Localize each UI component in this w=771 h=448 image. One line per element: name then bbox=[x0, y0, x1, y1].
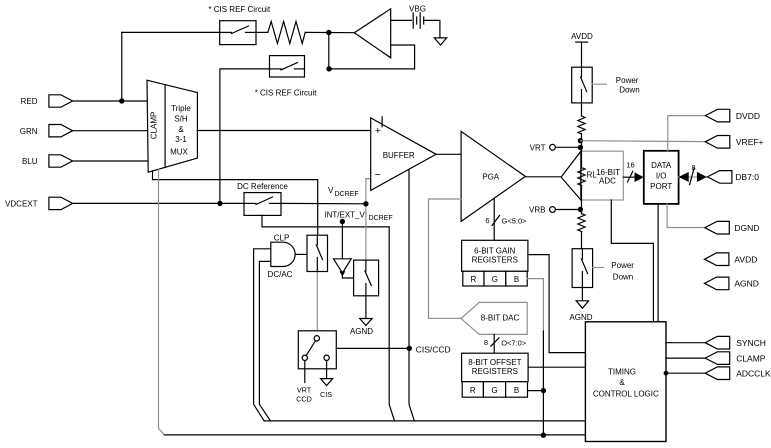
svg-text:DC/AC: DC/AC bbox=[268, 270, 293, 279]
svg-text:DVDD: DVDD bbox=[736, 111, 760, 121]
svg-text:AGND: AGND bbox=[734, 279, 759, 289]
svg-text:BLU: BLU bbox=[22, 157, 38, 166]
svg-text:AGND: AGND bbox=[569, 313, 592, 322]
svg-text:REGISTERS: REGISTERS bbox=[472, 255, 518, 264]
svg-text:−: − bbox=[375, 169, 381, 181]
svg-text:8: 8 bbox=[484, 338, 488, 347]
svg-text:CIS/CCD: CIS/CCD bbox=[416, 344, 451, 354]
svg-text:ADCCLK: ADCCLK bbox=[736, 368, 771, 378]
svg-text:VBG: VBG bbox=[409, 5, 426, 14]
svg-text:Triple: Triple bbox=[171, 104, 191, 113]
svg-text:DCREF: DCREF bbox=[369, 215, 393, 222]
svg-text:8-BIT OFFSET: 8-BIT OFFSET bbox=[468, 358, 521, 367]
svg-text:VREF+: VREF+ bbox=[736, 137, 764, 147]
svg-text:CCD: CCD bbox=[296, 395, 312, 404]
svg-text:DCREF: DCREF bbox=[335, 191, 359, 198]
svg-text:CONTROL LOGIC: CONTROL LOGIC bbox=[593, 390, 659, 399]
svg-text:DGND: DGND bbox=[734, 223, 759, 233]
svg-text:I/O: I/O bbox=[656, 172, 667, 181]
svg-text:Power: Power bbox=[611, 261, 634, 270]
svg-text:&: & bbox=[619, 378, 625, 387]
svg-text:VDCEXT: VDCEXT bbox=[5, 200, 38, 209]
svg-text:V: V bbox=[328, 186, 334, 195]
svg-text:8-BIT DAC: 8-BIT DAC bbox=[481, 314, 520, 323]
svg-text:Power: Power bbox=[616, 76, 639, 85]
svg-text:INT/EXT_V: INT/EXT_V bbox=[324, 211, 365, 220]
svg-text:R: R bbox=[470, 386, 476, 395]
svg-text:&: & bbox=[178, 125, 184, 134]
svg-text:G<5:0>: G<5:0> bbox=[502, 217, 528, 226]
svg-text:3-1: 3-1 bbox=[175, 135, 187, 144]
svg-text:6-BIT GAIN: 6-BIT GAIN bbox=[474, 247, 515, 256]
svg-text:ADC: ADC bbox=[599, 177, 616, 186]
svg-text:DATA: DATA bbox=[651, 161, 672, 170]
svg-text:PORT: PORT bbox=[650, 182, 672, 191]
svg-text:G: G bbox=[492, 275, 498, 284]
svg-text:B: B bbox=[514, 275, 519, 284]
svg-text:SYNCH: SYNCH bbox=[736, 338, 766, 348]
svg-text:AGND: AGND bbox=[350, 327, 373, 336]
svg-text:S/H: S/H bbox=[174, 115, 188, 124]
svg-text:VRT: VRT bbox=[530, 143, 546, 152]
svg-text:R: R bbox=[471, 275, 477, 284]
svg-text:CLAMP: CLAMP bbox=[736, 353, 766, 363]
svg-text:TIMING: TIMING bbox=[608, 368, 636, 377]
svg-text:BUFFER: BUFFER bbox=[383, 151, 415, 160]
svg-text:GRN: GRN bbox=[20, 127, 38, 136]
svg-text:8: 8 bbox=[692, 163, 696, 172]
svg-text:PGA: PGA bbox=[482, 172, 500, 181]
svg-text:+: + bbox=[375, 125, 381, 137]
svg-text:AVDD: AVDD bbox=[734, 254, 757, 264]
svg-text:CLAMP: CLAMP bbox=[150, 112, 159, 140]
svg-text:O<7:0>: O<7:0> bbox=[501, 338, 527, 347]
svg-text:G: G bbox=[491, 386, 497, 395]
svg-text:CIS: CIS bbox=[320, 390, 332, 399]
svg-text:VRB: VRB bbox=[529, 206, 545, 215]
svg-text:CLP: CLP bbox=[274, 234, 290, 243]
svg-text:16: 16 bbox=[626, 161, 634, 170]
svg-text:AVDD: AVDD bbox=[571, 32, 593, 41]
svg-text:Down: Down bbox=[613, 273, 633, 282]
svg-text:MUX: MUX bbox=[170, 147, 188, 156]
svg-text:REGISTERS: REGISTERS bbox=[472, 367, 518, 376]
svg-text:Down: Down bbox=[619, 86, 639, 95]
svg-text:* CIS REF Circuit: * CIS REF Circuit bbox=[255, 89, 318, 98]
svg-text:* CIS REF Circuit: * CIS REF Circuit bbox=[208, 5, 271, 14]
svg-text:B: B bbox=[514, 386, 519, 395]
svg-text:VRT: VRT bbox=[297, 386, 312, 395]
svg-text:DC Reference: DC Reference bbox=[237, 182, 288, 191]
svg-text:6: 6 bbox=[485, 216, 489, 225]
svg-text:RED: RED bbox=[21, 97, 38, 106]
svg-text:DB7:0: DB7:0 bbox=[735, 172, 759, 182]
